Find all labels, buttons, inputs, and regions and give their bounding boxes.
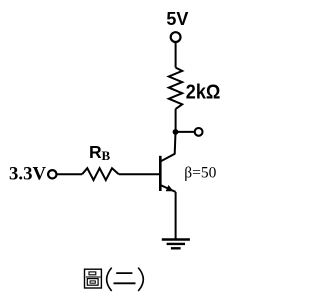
node collector junction: [173, 129, 179, 135]
terminal 5V supply: [171, 32, 181, 42]
hanzi TU inner top small box: [89, 272, 96, 275]
svg-text:3.3V: 3.3V: [9, 163, 46, 184]
hanzi TU lower box inner: [90, 281, 95, 283]
label 5V supply: [166, 9, 188, 29]
open parenthesis: [107, 268, 112, 291]
svg-text:B: B: [102, 148, 111, 163]
wire 5V terminal to 2k resistor: [175, 43, 177, 68]
hanzi TU middle horizontal stroke: [86, 276, 101, 278]
label beta=50: [184, 165, 216, 182]
value label 2kOhm: [186, 80, 221, 103]
wire input terminal to RB resistor: [57, 173, 82, 175]
resistor RB: [82, 168, 119, 180]
transistor Q1 NPN: [160, 154, 175, 192]
hanzi ER (two) bottom stroke: [114, 282, 136, 284]
emitter arrowhead: [166, 185, 174, 191]
svg-text:2kΩ: 2kΩ: [186, 80, 221, 103]
wire emitter to ground: [175, 192, 177, 239]
hanzi ER (two) top stroke: [116, 272, 132, 274]
label RB: [89, 142, 111, 163]
label 3.3V: [9, 163, 46, 184]
wire node to output terminal: [176, 131, 195, 133]
wire 2k resistor to collector node: [175, 109, 177, 132]
resistor 2kOhm: [169, 68, 182, 109]
svg-text:5V: 5V: [166, 9, 188, 29]
emitter lead: [160, 185, 175, 192]
terminal output: [195, 128, 203, 136]
close parenthesis: [138, 268, 143, 291]
wire RB resistor to transistor base: [119, 173, 161, 175]
hanzi TU lower box outer: [87, 279, 98, 286]
svg-text:R: R: [89, 142, 102, 162]
ground: [162, 240, 190, 249]
svg-text:β=50: β=50: [184, 165, 216, 182]
collector lead: [160, 154, 175, 162]
wire node to transistor collector: [174, 132, 177, 154]
terminal 3.3V input: [48, 170, 56, 178]
caption 圖(二): [85, 268, 144, 291]
base bar: [159, 156, 162, 191]
hanzi TU (figure) outer box: [85, 269, 102, 288]
